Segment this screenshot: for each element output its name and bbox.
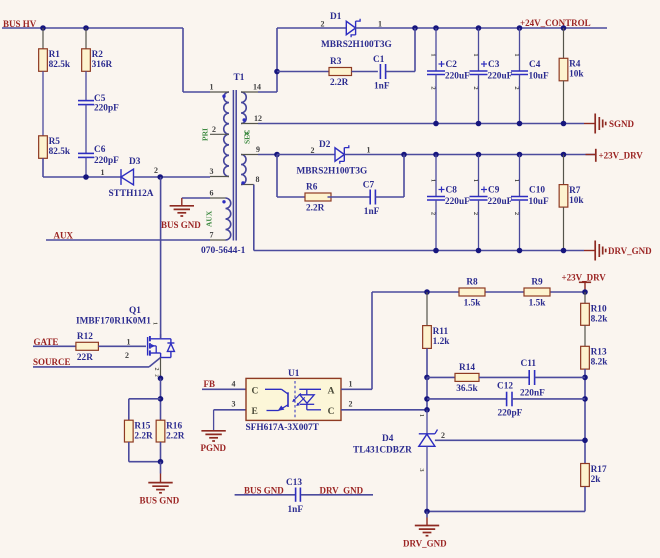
C13 designator — [286, 478, 302, 488]
wire SOURCE — [33, 351, 149, 367]
svg-text:R2: R2 — [92, 50, 104, 60]
svg-text:R6: R6 — [306, 183, 318, 193]
svg-text:10uF: 10uF — [529, 72, 549, 82]
svg-text:AUX: AUX — [205, 210, 214, 227]
resistor R17 — [581, 464, 607, 487]
wire D2 anode — [277, 154, 335, 156]
junction dots C12 row — [424, 396, 588, 402]
U1 designator — [288, 369, 300, 379]
svg-text:2.2R: 2.2R — [306, 204, 325, 214]
svg-text:316R: 316R — [92, 60, 113, 70]
resistor R15 — [124, 420, 153, 442]
diode D2 MBRS2H100T3G — [297, 140, 371, 177]
diode D1 MBRS2H100T3G — [321, 12, 392, 50]
capacitor C5 — [78, 94, 119, 114]
svg-text:14: 14 — [253, 83, 261, 92]
svg-text:1: 1 — [101, 168, 105, 177]
op-amp U1 optocoupler SFH617A — [246, 378, 341, 420]
svg-text:R1: R1 — [49, 50, 61, 60]
svg-text:DRV_GND: DRV_GND — [608, 246, 652, 256]
wire R2 to C5 — [85, 71, 87, 100]
T1 pin 1 — [210, 83, 230, 98]
power symbol DRV_GND — [584, 241, 652, 261]
resistor R13 — [581, 325, 609, 369]
svg-text:22R: 22R — [77, 353, 93, 363]
capacitor C2 — [427, 28, 470, 124]
svg-text:R4: R4 — [569, 60, 581, 70]
power symbol BUS GND at Q1 — [140, 462, 180, 506]
svg-text:C: C — [328, 407, 335, 417]
svg-text:+23V_DRV: +23V_DRV — [562, 273, 607, 283]
wire C6 down — [85, 157, 87, 177]
svg-text:TL431CDBZR: TL431CDBZR — [353, 446, 412, 456]
resistor R2 — [82, 28, 113, 71]
junction dots +24V rail — [412, 25, 566, 31]
wire FB to U1 pin 4 — [202, 379, 246, 389]
wire C5 to C6 — [85, 105, 87, 154]
wire GATE to R12 — [33, 345, 76, 347]
net label SOURCE — [33, 357, 71, 367]
svg-text:2: 2 — [441, 431, 445, 440]
svg-text:2: 2 — [349, 400, 353, 409]
svg-text:R15: R15 — [134, 422, 150, 432]
resistor R1 — [39, 28, 71, 71]
svg-text:220uF: 220uF — [488, 197, 513, 207]
wire +23V_DRV rail — [344, 154, 595, 156]
wire source diagonal — [149, 358, 161, 367]
T1 pin 2 — [210, 125, 229, 135]
svg-text:1: 1 — [513, 53, 520, 56]
svg-text:1: 1 — [152, 322, 158, 325]
wire C11 to R13 bottom — [535, 376, 585, 378]
junction dot source — [158, 376, 164, 382]
transformer T1 aux winding — [226, 198, 231, 240]
svg-text:R7: R7 — [569, 186, 581, 196]
svg-text:1nF: 1nF — [288, 505, 304, 515]
svg-text:1nF: 1nF — [364, 207, 380, 217]
svg-text:STTH112A: STTH112A — [109, 189, 154, 199]
junction dots R14 row — [424, 375, 588, 381]
wire BUS HV to T1 pin 1 — [183, 28, 210, 92]
wire R15 bottom — [129, 442, 161, 462]
svg-text:BUS GND: BUS GND — [161, 220, 201, 230]
diode D3 STTH112A — [101, 157, 159, 199]
wire U1 pin 1 up — [341, 292, 372, 389]
svg-text:C6: C6 — [94, 145, 106, 155]
svg-text:1.5k: 1.5k — [529, 299, 547, 309]
capacitor C12 — [497, 381, 523, 418]
svg-text:+24V_CONTROL: +24V_CONTROL — [520, 18, 591, 28]
T1 pin 6 — [210, 189, 226, 204]
wire R6 to C7 — [328, 196, 371, 198]
svg-text:10uF: 10uF — [529, 197, 549, 207]
svg-text:FB: FB — [204, 379, 216, 389]
svg-text:1: 1 — [430, 53, 437, 56]
svg-text:D4: D4 — [382, 434, 394, 444]
capacitor C7 — [363, 181, 380, 218]
wire bottom feedback row — [427, 487, 585, 512]
svg-text:4: 4 — [232, 379, 236, 388]
power symbol BUS GND at T1 pin 6 — [161, 198, 210, 230]
svg-text:1: 1 — [472, 179, 479, 182]
capacitor C9 — [470, 155, 513, 251]
resistor R5 — [39, 136, 71, 159]
svg-text:10k: 10k — [569, 70, 584, 80]
svg-text:R8: R8 — [466, 278, 478, 288]
net label BUS HV — [3, 19, 37, 29]
svg-text:C5: C5 — [94, 94, 106, 104]
wire C7 to D2 cathode column — [375, 196, 404, 198]
net label DRV_GND at C13 — [320, 485, 364, 495]
svg-text:9: 9 — [256, 145, 260, 154]
transformer T1 core — [233, 90, 236, 241]
net label BUS GND at C13 — [244, 485, 284, 495]
wire R12 to gate — [98, 338, 146, 347]
svg-text:R11: R11 — [433, 327, 449, 337]
junction dot +23V/R10 — [582, 289, 588, 295]
net label GATE — [34, 337, 59, 347]
capacitor C1 — [373, 55, 390, 91]
svg-text:2: 2 — [154, 166, 158, 175]
svg-text:SFH617A-3X007T: SFH617A-3X007T — [246, 423, 320, 433]
svg-text:A: A — [328, 386, 335, 396]
T1 part number 070-5644-1 — [201, 246, 246, 256]
T1 pin 3 — [210, 167, 230, 177]
transformer T1 primary winding — [224, 92, 229, 176]
wire D3 to T1 pin 3 — [134, 176, 211, 178]
svg-text:1.2k: 1.2k — [433, 337, 451, 347]
junction dot R15 branch — [158, 396, 164, 402]
transformer T1 secondary winding 9-8 — [241, 155, 246, 185]
wire D4 ref to R17 column — [435, 431, 585, 440]
wire U1 pin 2 to D4 — [341, 400, 426, 410]
wire AUX to T1 pin 7 — [46, 239, 210, 241]
capacitor C13 — [235, 488, 373, 516]
svg-text:220pF: 220pF — [94, 156, 119, 166]
svg-text:SGND: SGND — [609, 119, 635, 129]
svg-text:10k: 10k — [569, 196, 584, 206]
capacitor C11 — [520, 359, 545, 398]
resistor R16 — [156, 420, 185, 442]
svg-text:C9: C9 — [488, 185, 500, 195]
wire R14 to C11 — [479, 376, 529, 378]
svg-text:220uF: 220uF — [488, 72, 513, 82]
svg-text:DRV_GND: DRV_GND — [320, 485, 364, 495]
svg-text:220nF: 220nF — [520, 388, 545, 398]
junction dots +23V rail — [401, 152, 566, 158]
junction dots SGND rail — [433, 121, 566, 127]
junction dot pin14/R3 — [274, 69, 280, 75]
svg-text:1: 1 — [127, 338, 131, 347]
wire C1 to rail column — [386, 71, 415, 73]
wire +24V rail — [415, 27, 607, 29]
net label AUX — [54, 231, 74, 241]
svg-text:1: 1 — [378, 20, 382, 29]
svg-text:1: 1 — [367, 146, 371, 155]
svg-text:C8: C8 — [446, 185, 458, 195]
resistor R9 — [524, 278, 550, 309]
svg-text:U1: U1 — [288, 369, 300, 379]
wire R5 to D3 — [43, 158, 121, 177]
wire D1 cathode to rail — [356, 27, 415, 29]
wire U1 pin 3 to PGND — [214, 400, 246, 431]
wire to R6 — [277, 196, 305, 198]
svg-text:36.5k: 36.5k — [456, 384, 478, 394]
svg-text:070-5644-1: 070-5644-1 — [201, 246, 246, 256]
junction dot U1 pin2 row — [424, 407, 430, 413]
junction dot D3/drain — [157, 174, 163, 180]
resistor R8 — [459, 278, 485, 309]
svg-text:2: 2 — [311, 146, 315, 155]
junction dot ref row — [582, 438, 588, 444]
wire to R15 — [129, 399, 161, 420]
wire R11 column down — [426, 377, 428, 409]
resistor R11 — [423, 292, 451, 348]
svg-text:Q1: Q1 — [129, 306, 141, 316]
wire to C12 — [427, 398, 507, 400]
T1 AUX label — [205, 210, 214, 227]
svg-text:1: 1 — [513, 179, 520, 182]
wire Q1 drain up to D3 node — [160, 177, 162, 339]
svg-text:PRI: PRI — [201, 128, 210, 141]
svg-text:2: 2 — [125, 351, 129, 360]
svg-text:MBRS2H100T3G: MBRS2H100T3G — [321, 40, 392, 50]
capacitor C8 — [427, 155, 470, 251]
svg-text:SOURCE: SOURCE — [33, 357, 71, 367]
junction dot D4 anode bottom — [424, 509, 430, 515]
transformer T1 designator — [234, 73, 245, 83]
T1 pin 12 — [241, 114, 262, 124]
svg-text:2: 2 — [212, 125, 216, 134]
svg-text:R9: R9 — [531, 278, 543, 288]
T1 pin 14 — [241, 83, 261, 93]
svg-text:C13: C13 — [286, 478, 302, 488]
svg-text:6: 6 — [210, 189, 214, 198]
resistor R7 — [559, 155, 584, 251]
wire R16 bottom — [160, 442, 162, 462]
capacitor C10 — [511, 155, 549, 251]
svg-text:220uF: 220uF — [445, 72, 470, 82]
svg-text:C7: C7 — [363, 181, 375, 191]
svg-text:C: C — [252, 386, 259, 396]
junction dot R11 top — [424, 289, 430, 295]
wire R1 to R5 — [42, 71, 44, 136]
T1 PRI label — [201, 128, 210, 141]
svg-text:R12: R12 — [77, 332, 93, 342]
svg-text:3: 3 — [210, 167, 214, 176]
resistor R4 — [559, 28, 584, 124]
Q1 source pin down — [160, 358, 162, 379]
wire C1 up to rail — [414, 28, 416, 72]
svg-text:1nF: 1nF — [374, 82, 390, 92]
wire feedback top row — [372, 291, 585, 293]
svg-text:C11: C11 — [521, 359, 537, 369]
svg-text:R17: R17 — [591, 465, 607, 475]
svg-text:C3: C3 — [488, 60, 500, 70]
svg-text:R16: R16 — [166, 422, 182, 432]
svg-text:R13: R13 — [591, 348, 607, 358]
green marker near pin 12 — [245, 132, 249, 136]
wire SGND rail from T1 pin 12 — [258, 123, 584, 125]
svg-text:IMBF170R1K0M1: IMBF170R1K0M1 — [76, 317, 151, 327]
wire BUS HV rail — [2, 27, 183, 29]
svg-text:R10: R10 — [591, 305, 607, 315]
svg-text:2: 2 — [153, 368, 159, 371]
wire R13 bottom down — [584, 369, 586, 463]
svg-text:2.2R: 2.2R — [134, 432, 153, 442]
junction dot pin9/R6 — [274, 152, 280, 158]
svg-text:2k: 2k — [591, 475, 602, 485]
svg-text:8.2k: 8.2k — [591, 315, 609, 325]
svg-text:1: 1 — [349, 379, 353, 388]
svg-text:1: 1 — [472, 53, 479, 56]
T1 SEC label — [243, 129, 252, 144]
svg-text:3: 3 — [232, 400, 236, 409]
svg-text:1.5k: 1.5k — [464, 299, 482, 309]
svg-text:BUS GND: BUS GND — [244, 485, 284, 495]
svg-text:D3: D3 — [129, 157, 141, 167]
svg-text:BUS GND: BUS GND — [140, 496, 180, 506]
transformer T1 secondary winding 14-12 — [241, 92, 246, 124]
diode D4 TL431CDBZR — [418, 410, 438, 512]
junction dot C6/D3 — [83, 174, 89, 180]
svg-text:C10: C10 — [529, 185, 545, 195]
wire R11 to R14 row — [426, 348, 428, 377]
wire source to R16 — [160, 378, 162, 420]
svg-text:82.5k: 82.5k — [49, 60, 71, 70]
svg-text:MBRS2H100T3G: MBRS2H100T3G — [297, 167, 368, 177]
resistor R3 — [329, 57, 352, 88]
svg-text:220uF: 220uF — [445, 197, 470, 207]
junction dot R15/R16 bottom — [158, 459, 164, 465]
resistor R6 — [305, 183, 331, 214]
power symbol DRV_GND bottom — [403, 511, 447, 548]
svg-text:T1: T1 — [234, 73, 245, 83]
power port +23V_DRV top — [562, 273, 607, 293]
power symbol PGND — [201, 431, 227, 453]
svg-text:PGND: PGND — [201, 443, 227, 453]
T1 pin 7 — [210, 231, 226, 241]
capacitor C6 — [78, 145, 119, 166]
wire T1 pin14 up — [258, 28, 277, 92]
svg-text:8: 8 — [256, 175, 260, 184]
U1 part number — [246, 423, 320, 433]
svg-text:12: 12 — [254, 114, 262, 123]
wire D1 anode — [277, 27, 346, 29]
svg-text:DRV_GND: DRV_GND — [403, 539, 447, 549]
T1 pin 8 — [241, 175, 260, 185]
D4 designator — [353, 434, 412, 456]
svg-text:1: 1 — [210, 83, 214, 92]
svg-text:220pF: 220pF — [94, 104, 119, 114]
svg-text:E: E — [252, 407, 258, 417]
svg-text:C12: C12 — [497, 381, 513, 391]
svg-text:8.2k: 8.2k — [591, 358, 609, 368]
svg-text:D1: D1 — [330, 12, 342, 22]
net label FB — [204, 379, 216, 389]
svg-text:82.5k: 82.5k — [49, 147, 71, 157]
transistor Q1 MOSFET — [148, 322, 175, 377]
power symbol SGND — [584, 114, 635, 134]
wire pin14 node to R3 — [277, 71, 329, 73]
svg-text:AUX: AUX — [54, 231, 74, 241]
resistor R14 — [455, 363, 479, 394]
Q1 designator — [76, 306, 151, 327]
svg-text:1: 1 — [418, 414, 425, 417]
wire T1 pin9 — [258, 154, 277, 156]
resistor R12 — [76, 332, 99, 363]
capacitor C4 — [511, 28, 549, 124]
svg-text:7: 7 — [210, 231, 214, 240]
svg-text:1: 1 — [430, 179, 437, 182]
svg-text:R14: R14 — [459, 363, 475, 373]
svg-text:2.2R: 2.2R — [330, 78, 349, 88]
wire to R14 — [427, 376, 455, 378]
capacitor C3 — [470, 28, 513, 124]
wire R3 to C1 — [352, 71, 378, 73]
svg-text:SEC: SEC — [243, 129, 252, 144]
svg-text:C2: C2 — [446, 60, 458, 70]
wire pin9 node down to R6 — [276, 155, 278, 198]
junction dots DRV_GND rail — [433, 248, 566, 254]
power port +23V_DRV — [586, 149, 644, 162]
T1 pin 9 — [241, 145, 260, 155]
wire DRV_GND rail from T1 pin 8 — [254, 185, 584, 251]
resistor R10 — [581, 292, 609, 325]
svg-text:D2: D2 — [319, 140, 331, 150]
svg-text:C1: C1 — [373, 55, 385, 65]
svg-text:220pF: 220pF — [498, 409, 523, 419]
wire C12 to right column — [512, 398, 585, 400]
svg-text:R5: R5 — [49, 137, 61, 147]
svg-text:C4: C4 — [529, 60, 541, 70]
svg-text:2: 2 — [321, 20, 325, 29]
net label +24V_CONTROL — [520, 18, 591, 28]
svg-text:+23V_DRV: +23V_DRV — [599, 151, 644, 161]
svg-text:2.2R: 2.2R — [166, 432, 185, 442]
junction dots on BUS HV — [40, 25, 89, 31]
wire up to D2 cathode — [403, 155, 405, 198]
svg-text:R3: R3 — [330, 57, 342, 67]
